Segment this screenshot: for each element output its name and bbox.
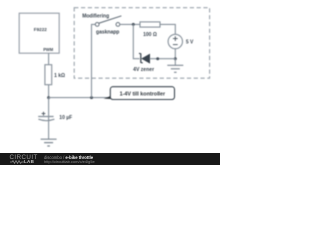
node E junction dot xyxy=(156,57,159,60)
resistor R2 body xyxy=(140,22,160,27)
wire switch right terminal to node C xyxy=(120,23,140,25)
node C junction dot xyxy=(132,23,135,26)
wire node C down and right to zener cathode xyxy=(133,24,139,58)
CircuitLab logo xyxy=(10,155,37,160)
capacitor C1 plus sign xyxy=(42,112,46,116)
IC U1 F9222 box xyxy=(19,13,59,53)
V1 minus sign xyxy=(173,44,178,46)
wire R1 bottom to node A xyxy=(48,85,50,98)
watermark line 1 xyxy=(44,155,93,160)
watermark line 2 xyxy=(44,159,95,164)
svg-text:PWM: PWM xyxy=(43,47,54,52)
zener D1 cathode bar xyxy=(139,53,143,63)
wire node A to annotation anchor xyxy=(49,97,108,99)
ground GND2 xyxy=(167,65,183,72)
capacitor C1 curved bottom plate xyxy=(38,119,54,120)
svg-text:100 Ω: 100 Ω xyxy=(143,32,157,38)
switch SW1 right terminal xyxy=(116,23,120,27)
wire node A down to C1 xyxy=(48,98,50,140)
wire zener anode to node E xyxy=(150,58,176,60)
node A junction dot xyxy=(47,96,50,99)
watermark bar xyxy=(0,153,220,165)
dashed modification box xyxy=(74,8,209,79)
wire V1 bottom to node D xyxy=(174,49,176,59)
wire switch left terminal to left rail xyxy=(92,24,96,97)
voltage source V1 circle xyxy=(168,34,182,48)
svg-text:5 V: 5 V xyxy=(186,39,194,45)
svg-text:Modifiering: Modifiering xyxy=(82,14,109,20)
annotation box 1-4V till kontroller xyxy=(110,87,174,100)
switch SW1 left terminal xyxy=(95,23,99,27)
wire node D to ground stem xyxy=(174,59,176,65)
wire PWM pin to R1 top xyxy=(48,53,50,64)
svg-text:1 kΩ: 1 kΩ xyxy=(54,73,65,79)
capacitor C1 top plate xyxy=(38,116,53,118)
svg-text:1-4V till kontroller: 1-4V till kontroller xyxy=(120,91,166,97)
svg-text:10 µF: 10 µF xyxy=(59,115,72,121)
wire R2 right to V1 top xyxy=(160,24,175,34)
svg-text:F9222: F9222 xyxy=(34,27,47,32)
V1 plus sign xyxy=(173,36,178,41)
zener D1 triangle xyxy=(141,54,150,64)
switch SW1 lever xyxy=(99,16,122,23)
svg-text:gasknapp: gasknapp xyxy=(96,29,119,35)
annotation pointer xyxy=(104,93,119,99)
node B junction dot xyxy=(90,96,93,99)
resistor R1 body xyxy=(45,65,52,85)
ground GND1 xyxy=(41,139,57,146)
svg-text:4V zener: 4V zener xyxy=(133,67,154,73)
node D junction dot xyxy=(174,57,177,60)
